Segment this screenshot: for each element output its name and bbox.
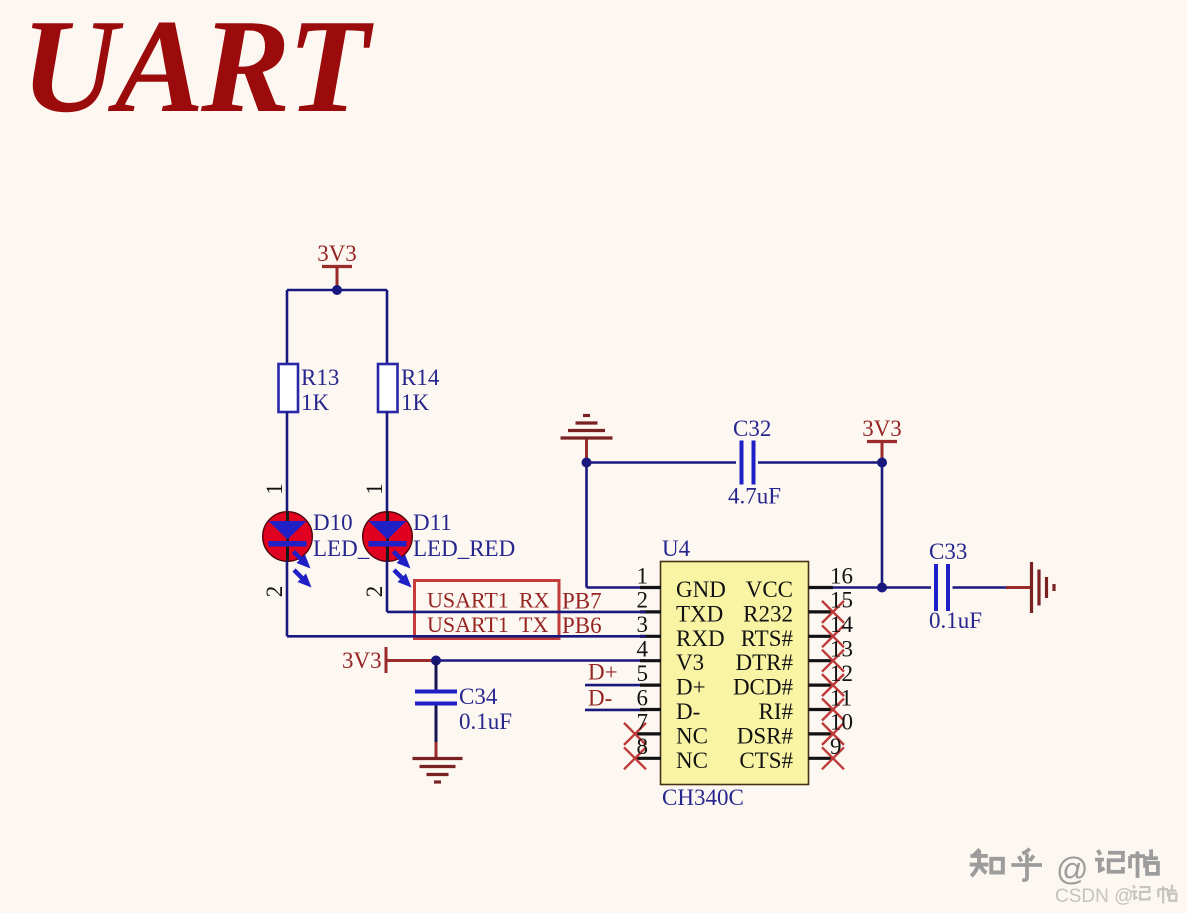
svg-text:D11: D11	[413, 510, 452, 535]
svg-text:0.1uF: 0.1uF	[929, 608, 982, 633]
svg-text:1K: 1K	[401, 390, 430, 415]
svg-text:@: @	[1056, 851, 1088, 887]
svg-text:4.7uF: 4.7uF	[728, 484, 781, 509]
svg-text:CH340C: CH340C	[662, 785, 744, 810]
svg-text:PB7: PB7	[562, 589, 602, 614]
svg-text:D+: D+	[676, 675, 706, 700]
svg-text:C32: C32	[733, 416, 771, 441]
svg-text:LED_: LED_	[313, 536, 370, 561]
svg-text:D+: D+	[588, 660, 618, 685]
svg-text:USART1TX: USART1TX	[427, 612, 548, 637]
svg-text:2: 2	[262, 586, 287, 598]
svg-text:14: 14	[830, 612, 854, 637]
svg-text:U4: U4	[662, 536, 691, 561]
svg-text:R14: R14	[401, 365, 440, 390]
svg-text:NC: NC	[676, 748, 708, 773]
svg-text:D10: D10	[313, 510, 353, 535]
svg-text:8: 8	[637, 734, 649, 759]
svg-text:C34: C34	[459, 684, 498, 709]
svg-text:1K: 1K	[301, 390, 330, 415]
svg-text:VCC: VCC	[746, 577, 793, 602]
svg-text:DSR#: DSR#	[737, 723, 794, 748]
svg-text:7: 7	[637, 710, 649, 735]
svg-text:3V3: 3V3	[862, 416, 902, 441]
svg-text:PB6: PB6	[562, 613, 602, 638]
svg-text:0.1uF: 0.1uF	[459, 709, 512, 734]
svg-text:C33: C33	[929, 539, 967, 564]
svg-text:16: 16	[830, 563, 853, 588]
svg-text:11: 11	[830, 685, 852, 710]
svg-text:RTS#: RTS#	[741, 626, 794, 651]
svg-text:10: 10	[830, 710, 853, 735]
svg-text:1: 1	[262, 483, 287, 495]
svg-text:4: 4	[637, 637, 649, 662]
svg-text:3: 3	[637, 612, 649, 637]
svg-text:RI#: RI#	[759, 699, 794, 724]
svg-text:D-: D-	[676, 699, 700, 724]
svg-text:6: 6	[637, 685, 649, 710]
svg-text:12: 12	[830, 661, 853, 686]
svg-text:3V3: 3V3	[342, 648, 382, 673]
svg-text:CTS#: CTS#	[739, 748, 793, 773]
svg-text:9: 9	[830, 734, 842, 759]
svg-text:CSDN @: CSDN @	[1055, 886, 1133, 907]
svg-text:USART1RX: USART1RX	[427, 588, 550, 613]
svg-text:5: 5	[637, 661, 649, 686]
svg-text:V3: V3	[676, 650, 704, 675]
svg-text:2: 2	[362, 586, 387, 598]
svg-text:GND: GND	[676, 577, 726, 602]
svg-text:15: 15	[830, 588, 853, 613]
svg-text:1: 1	[362, 483, 387, 495]
svg-text:TXD: TXD	[676, 601, 723, 626]
svg-text:3V3: 3V3	[317, 241, 357, 266]
svg-text:1: 1	[637, 563, 649, 588]
svg-text:DTR#: DTR#	[736, 650, 794, 675]
svg-text:R13: R13	[301, 365, 339, 390]
svg-text:DCD#: DCD#	[733, 675, 794, 700]
svg-text:NC: NC	[676, 723, 708, 748]
svg-text:13: 13	[830, 637, 853, 662]
svg-text:RXD: RXD	[676, 626, 725, 651]
svg-text:D-: D-	[588, 686, 612, 711]
svg-text:R232: R232	[743, 601, 793, 626]
svg-text:LED_RED: LED_RED	[413, 536, 515, 561]
svg-text:2: 2	[637, 588, 649, 613]
